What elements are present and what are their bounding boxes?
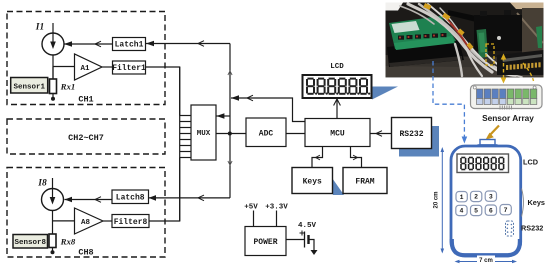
sensor Sensor1 xyxy=(11,78,48,94)
table surface band xyxy=(386,55,544,77)
POWER xyxy=(245,227,286,256)
svg-text:POWER: POWER xyxy=(253,238,277,247)
wire Filter8 to analog bus xyxy=(149,158,180,222)
Keys xyxy=(292,168,333,194)
yellow dashed box in photo xyxy=(486,44,494,65)
device keys row 2 xyxy=(456,205,512,216)
dimension 7 cm xyxy=(456,261,516,263)
wire A8 to Filter8 xyxy=(103,220,112,222)
svg-text:CH2~CH7: CH2~CH7 xyxy=(68,133,104,143)
svg-text:FRAM: FRAM xyxy=(355,178,374,187)
dashed box CH1 xyxy=(7,12,165,105)
svg-text:RS232: RS232 xyxy=(399,130,423,139)
svg-text:A1: A1 xyxy=(80,65,90,73)
svg-text:MUX: MUX xyxy=(197,130,211,138)
sensor Sensor8 xyxy=(13,235,48,249)
left PCB black tray xyxy=(387,40,464,67)
svg-text:CH8: CH8 xyxy=(78,248,93,258)
svg-text:Rx1: Rx1 xyxy=(60,81,76,91)
control bus vertical wire xyxy=(228,44,232,198)
blue dashed link photo to device xyxy=(433,61,464,140)
svg-text:Sensor8: Sensor8 xyxy=(14,239,46,247)
handheld device body xyxy=(451,140,521,257)
svg-text:LCD: LCD xyxy=(523,158,538,167)
RS232 xyxy=(392,118,432,149)
LCD blue triangle xyxy=(372,87,398,100)
svg-text:1: 1 xyxy=(460,194,464,201)
svg-text:I1: I1 xyxy=(35,23,44,33)
filter Filter8 xyxy=(112,215,149,228)
svg-text:A8: A8 xyxy=(81,219,91,227)
svg-text:RS232: RS232 xyxy=(521,224,543,233)
resistor Rx1 xyxy=(50,67,57,98)
junction dot xyxy=(228,132,232,136)
analog bus vertical wire xyxy=(179,67,181,221)
sensor array icon xyxy=(471,85,543,110)
RS232 blue shadow xyxy=(399,126,439,157)
dimension 20 cm xyxy=(441,149,443,252)
DB25 connector xyxy=(497,50,544,75)
black instrument box xyxy=(448,10,476,22)
keys bracket xyxy=(522,189,524,217)
current source I1 xyxy=(42,23,64,55)
wire MUX to ADC xyxy=(216,133,246,135)
svg-text:7 cm: 7 cm xyxy=(479,258,493,264)
svg-text:Rx8: Rx8 xyxy=(60,237,76,247)
op-amp A8 xyxy=(75,208,104,234)
LCD seven segment display xyxy=(303,75,372,98)
photo of prototype hardware xyxy=(386,3,544,84)
device RS232 port icon xyxy=(506,221,514,236)
wire MCU to FRAM xyxy=(351,147,362,168)
FRAM xyxy=(343,168,387,194)
svg-text:Latch1: Latch1 xyxy=(115,41,144,50)
dashed box CH8 xyxy=(7,168,165,258)
svg-text:MCU: MCU xyxy=(330,129,345,138)
resistor Rx8 xyxy=(49,234,56,251)
svg-text:20 cm: 20 cm xyxy=(433,191,439,208)
cable bundle xyxy=(400,4,522,77)
svg-text:Latch8: Latch8 xyxy=(116,194,145,203)
PCB white screen window xyxy=(392,21,420,33)
POWER supply stubs xyxy=(254,211,277,227)
svg-text:I8: I8 xyxy=(37,179,47,189)
wire current source to A1 input xyxy=(53,55,75,80)
op-amp A1 xyxy=(75,54,103,80)
right green PCB strip xyxy=(477,29,489,58)
svg-text:3: 3 xyxy=(489,193,493,200)
svg-text:+3.3V: +3.3V xyxy=(265,204,288,212)
svg-text:LCD: LCD xyxy=(330,63,344,71)
svg-text:6: 6 xyxy=(489,207,493,214)
wire Filter1 to analog bus xyxy=(146,67,180,116)
yellow tape marks on cables xyxy=(423,3,473,50)
wire MCU to Keys xyxy=(312,147,323,168)
ground symbol xyxy=(311,250,318,255)
wire MCU to LCD xyxy=(334,99,341,119)
device LCD xyxy=(457,154,509,173)
wire current source I8 to A8 input xyxy=(53,210,75,234)
wire latch8 to current source I8 xyxy=(65,197,113,203)
svg-text:5: 5 xyxy=(474,208,478,215)
battery 4.5V xyxy=(286,231,314,251)
wire ADC to MCU xyxy=(286,133,305,135)
ground terminal dot CH1 xyxy=(51,97,55,101)
wire MCU to control bus xyxy=(231,95,305,121)
svg-text:4: 4 xyxy=(459,208,463,215)
latch Latch8 xyxy=(112,190,149,204)
wire bus to Latch8 xyxy=(149,195,231,201)
yellow dashed arrow photo to sensor array xyxy=(501,54,534,84)
svg-text:+5V: +5V xyxy=(244,204,258,212)
svg-text:Sensor1: Sensor1 xyxy=(13,83,45,91)
device key digits xyxy=(459,193,507,214)
svg-text:Keys: Keys xyxy=(303,178,322,187)
svg-text:Filter8: Filter8 xyxy=(114,218,148,227)
wire latch1 to current source I1 xyxy=(64,41,113,47)
svg-text:CH1: CH1 xyxy=(78,95,93,105)
dashed box CH2~CH7 xyxy=(7,119,165,154)
ADC xyxy=(246,118,286,147)
MCU xyxy=(305,119,370,147)
PCB component row xyxy=(398,33,447,40)
filter Filter1 xyxy=(112,61,146,74)
Keys blue triangle xyxy=(333,179,344,195)
svg-text:Sensor Array: Sensor Array xyxy=(482,113,534,123)
ground terminal dot CH8 xyxy=(51,250,55,254)
latch Latch1 xyxy=(113,38,146,51)
multiplexer MUX xyxy=(191,105,216,160)
wire control bus to MUX select xyxy=(216,113,230,119)
svg-text:Filter1: Filter1 xyxy=(112,64,146,73)
wire A1 to Filter1 xyxy=(102,66,113,68)
device keys row 1 xyxy=(456,191,497,202)
svg-text:2: 2 xyxy=(474,194,478,201)
current source I8 xyxy=(42,178,64,211)
svg-text:4.5V: 4.5V xyxy=(298,222,317,230)
wire MCU to RS232 xyxy=(370,131,392,137)
svg-text:ADC: ADC xyxy=(259,129,274,138)
left PCB green face xyxy=(389,16,456,49)
orange arrow sensor array to device xyxy=(486,126,500,140)
wire bus to Latch1 xyxy=(146,41,230,47)
svg-text:Keys: Keys xyxy=(528,198,545,207)
MUX input stubs xyxy=(180,116,191,158)
svg-text:7: 7 xyxy=(504,207,508,214)
